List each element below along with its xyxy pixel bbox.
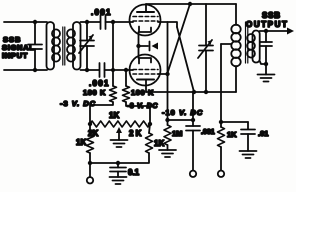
ground .01 <box>240 151 257 158</box>
svg-text:-10 V. DC: -10 V. DC <box>162 108 203 117</box>
node grid bottom <box>124 68 128 72</box>
svg-text:1K: 1K <box>76 138 86 147</box>
wire -10V <box>168 119 194 121</box>
resistor R2 100K right <box>123 70 151 124</box>
potentiometer R3 1K with 2K halves <box>90 121 150 127</box>
svg-text:1M: 1M <box>172 129 182 138</box>
ground 1M <box>159 150 176 157</box>
transformer T1 secondary <box>67 22 81 70</box>
svg-text:OUTPUT: OUTPUT <box>246 20 289 29</box>
node var cap bottom <box>85 68 89 72</box>
capacitor C4 .001 bottom <box>100 63 127 77</box>
svg-text:INPUT: INPUT <box>2 51 28 60</box>
wire .001 column <box>192 92 194 126</box>
node crossing blob <box>111 68 115 72</box>
tube V2 grids <box>133 70 158 75</box>
node grid top <box>111 20 115 24</box>
wire cross diagonal B <box>177 27 194 92</box>
variable capacitor C7 tank <box>198 4 213 92</box>
resistor R7 1K bottom <box>218 122 225 171</box>
wire input bottom <box>4 69 47 71</box>
capacitor C10 .01 <box>241 122 255 151</box>
svg-text:1K: 1K <box>109 111 119 120</box>
wire secondary bottom <box>81 69 100 71</box>
node cathode junction <box>136 44 140 48</box>
node bus cap <box>116 161 120 165</box>
terminal carrier input <box>87 163 93 184</box>
wire plate rail bottom <box>146 91 236 93</box>
svg-text:.001: .001 <box>201 129 215 136</box>
tube V2 envelope <box>130 55 161 86</box>
wire cross diagonal A <box>168 4 191 73</box>
wire tap to .01 <box>221 121 248 123</box>
svg-text:1K: 1K <box>227 130 237 139</box>
svg-text:2 K: 2 K <box>129 129 142 138</box>
wire tap vertical <box>220 44 222 122</box>
svg-text:100 K: 100 K <box>83 88 106 97</box>
node diag B bottom <box>192 90 196 94</box>
svg-text:SSB: SSB <box>262 11 281 20</box>
ground wiper <box>111 140 128 147</box>
ground 0.1 cap <box>110 177 127 184</box>
node input cap bottom <box>33 68 37 72</box>
resistor R1 100K left <box>90 22 117 124</box>
svg-text:.001: .001 <box>89 79 110 88</box>
wire deflection stub lower <box>158 73 168 75</box>
svg-text:.001: .001 <box>91 8 112 17</box>
wire bottom bus <box>90 162 118 164</box>
tube V1 grids <box>133 17 158 22</box>
transformer T1 primary <box>47 22 61 70</box>
node -10V right <box>191 118 195 122</box>
node -10V left <box>165 118 169 122</box>
output arrowhead <box>287 28 294 35</box>
wire plate rail top <box>146 3 236 5</box>
terminal .001 <box>190 171 196 177</box>
capacitor C3 .001 top <box>101 15 114 29</box>
tube V2 plate <box>137 80 154 93</box>
capacitor C1 input shunt <box>28 22 42 70</box>
node pot left <box>88 122 92 126</box>
transformer T2 primary <box>231 4 240 92</box>
resistor R6 1M <box>164 120 171 150</box>
transformer T2 core <box>246 22 248 63</box>
svg-text:.01: .01 <box>258 129 268 138</box>
node pot right <box>148 122 152 126</box>
node diag A top <box>188 2 192 6</box>
node tap junction <box>219 120 223 124</box>
wire secondary top <box>81 21 101 23</box>
pot wiper arrow <box>116 127 122 140</box>
wire grid top <box>113 21 133 23</box>
ground output <box>258 75 275 82</box>
transformer T1 core <box>63 27 65 65</box>
wire output <box>260 30 290 32</box>
svg-text:-3 V. DC: -3 V. DC <box>127 103 158 110</box>
wire deflection vertical <box>167 22 169 120</box>
node input cap top <box>33 20 37 24</box>
node trimmer bottom <box>204 90 208 94</box>
capacitor C6 0.1 <box>110 163 126 177</box>
tube V1 cathode <box>139 27 152 47</box>
trimmer capacitor C5 balance <box>139 42 159 51</box>
tube V1 plate <box>137 4 154 12</box>
node bus left <box>88 161 92 165</box>
transformer T2 secondary <box>247 31 266 65</box>
tube V2 cathode <box>139 46 152 64</box>
tube V1 envelope <box>130 5 161 36</box>
capacitor C9 .001 <box>186 126 200 171</box>
svg-text:-3 V. DC: -3 V. DC <box>60 99 96 108</box>
node output cap <box>264 29 268 33</box>
node secondary bottom <box>264 62 268 66</box>
variable capacitor C2 <box>79 22 94 70</box>
terminal 1K <box>218 171 224 177</box>
capacitor C8 output <box>260 31 272 75</box>
wire input top <box>4 21 47 23</box>
wire deflection stub top <box>158 22 177 27</box>
wire primary tap <box>221 43 232 45</box>
wire grid bottom <box>126 69 133 71</box>
node var cap top <box>85 20 89 24</box>
svg-text:1K: 1K <box>154 139 164 148</box>
node deflection lower <box>165 72 169 76</box>
resistor R4 1K left <box>87 124 94 163</box>
resistor R5 1K right <box>118 124 153 163</box>
svg-text:0.1: 0.1 <box>128 168 140 177</box>
